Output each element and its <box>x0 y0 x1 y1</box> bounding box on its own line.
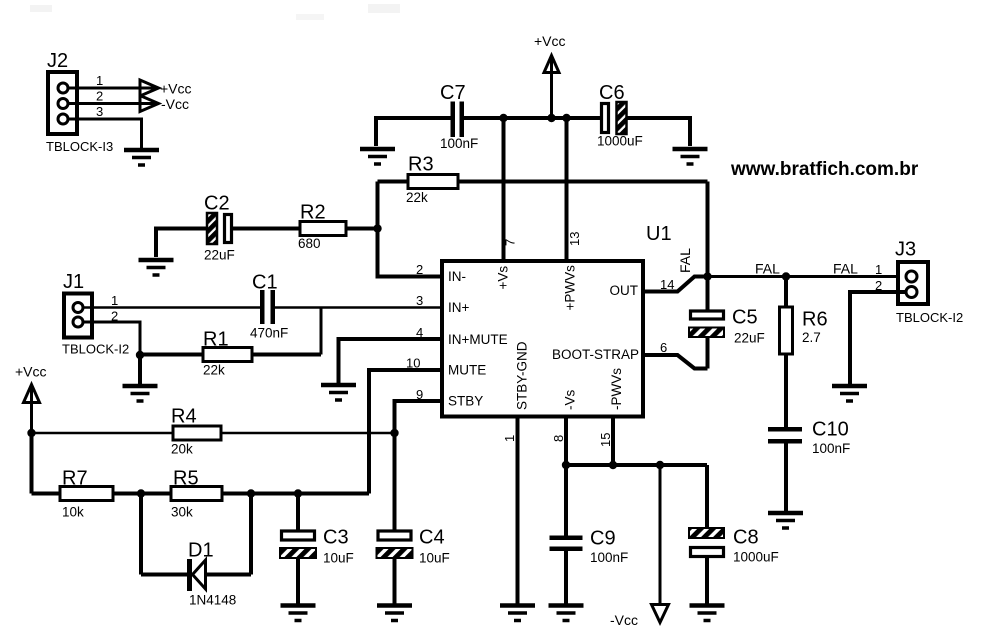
svg-text:C6: C6 <box>599 82 625 104</box>
svg-text:J1: J1 <box>63 271 84 293</box>
svg-text:3: 3 <box>96 104 103 119</box>
ground below C3 <box>281 606 316 621</box>
svg-text:C8: C8 <box>733 527 759 549</box>
ground below J2 <box>124 150 159 165</box>
svg-text:IN+: IN+ <box>448 300 470 315</box>
svg-text:14: 14 <box>660 277 674 292</box>
svg-text:R3: R3 <box>408 154 434 176</box>
ground pin 1 <box>500 606 535 621</box>
capacitor C3 <box>280 494 354 604</box>
wire feedback node down to pin 2 <box>378 182 441 277</box>
resistor R1 <box>140 329 321 378</box>
svg-text:1000uF: 1000uF <box>597 134 643 149</box>
svg-text:22k: 22k <box>203 363 225 378</box>
svg-text:C4: C4 <box>419 527 445 549</box>
svg-text:-Vcc: -Vcc <box>610 612 638 628</box>
svg-text:C2: C2 <box>204 193 230 215</box>
svg-text:6: 6 <box>660 340 667 355</box>
capacitor C2 <box>204 193 235 263</box>
connector J3 <box>895 239 963 326</box>
svg-text:-Vs: -Vs <box>563 390 578 411</box>
svg-text:100nF: 100nF <box>440 136 478 151</box>
svg-text:J3: J3 <box>895 239 916 261</box>
wire output node down to C5 <box>706 277 710 312</box>
svg-text:STBY-GND: STBY-GND <box>515 341 530 410</box>
svg-text:100nF: 100nF <box>812 441 850 456</box>
svg-text:2.7: 2.7 <box>802 330 821 345</box>
ground below C9 <box>549 606 584 621</box>
wire J2 pin3 to ground <box>68 119 142 148</box>
svg-text:R6: R6 <box>802 309 828 331</box>
svg-text:22uF: 22uF <box>204 248 235 263</box>
svg-text:+Vs: +Vs <box>496 266 511 290</box>
svg-text:C7: C7 <box>440 82 466 104</box>
svg-text:C10: C10 <box>812 419 849 441</box>
svg-text:2: 2 <box>416 262 423 277</box>
wire J1 pin1 to C1 <box>83 306 260 309</box>
node dot R5 right <box>247 489 255 497</box>
ground bus left <box>360 149 395 164</box>
wire C5 bottom to boot-strap jog <box>706 337 710 369</box>
svg-text:+PWVs: +PWVs <box>563 265 578 311</box>
svg-text:-PWVs: -PWVs <box>609 368 624 410</box>
svg-text:20k: 20k <box>171 442 193 457</box>
wire C10 to ground <box>784 444 788 512</box>
svg-text:470nF: 470nF <box>250 326 288 341</box>
wire J2 pin1 to +Vcc arrow <box>68 87 157 90</box>
wire BOOT-STRAP pin 6 jog <box>645 355 708 369</box>
node dot pin 15 <box>609 461 617 469</box>
resistor R5 <box>141 468 369 520</box>
+Vcc power arrow bottom left <box>15 364 47 434</box>
capacitor C5 <box>689 307 765 346</box>
wire pin 10 down <box>369 370 440 494</box>
svg-text:13: 13 <box>567 232 582 246</box>
svg-text:30k: 30k <box>171 505 193 520</box>
svg-text:+Vcc: +Vcc <box>160 81 192 97</box>
diode D1 <box>141 494 251 608</box>
svg-text:680: 680 <box>298 236 321 251</box>
resistor R4 <box>32 406 395 457</box>
node dot pin13 on bus <box>562 114 570 122</box>
svg-text:100nF: 100nF <box>590 550 628 565</box>
wire J2 pin2 to -Vcc arrow <box>68 102 157 105</box>
svg-text:10uF: 10uF <box>419 551 450 566</box>
resistor R2 <box>298 202 346 252</box>
svg-text:D1: D1 <box>188 540 214 562</box>
ground below J1 <box>123 386 158 401</box>
svg-text:1: 1 <box>502 435 517 442</box>
svg-text:1000uF: 1000uF <box>733 550 779 565</box>
capacitor C8 <box>689 465 779 604</box>
capacitor C1 <box>250 272 288 341</box>
svg-text:4: 4 <box>416 325 423 340</box>
wire bus to pin 13 <box>565 118 569 259</box>
svg-text:FAL: FAL <box>755 261 780 277</box>
svg-text:C3: C3 <box>323 527 349 549</box>
svg-text:J2: J2 <box>47 50 68 72</box>
ground below C10 <box>768 513 803 528</box>
wire +Vcc node down to R7 <box>30 433 34 494</box>
ground pin 4 <box>321 385 356 400</box>
capacitor C6 <box>597 82 643 149</box>
svg-text:www.bratfich.com.br: www.bratfich.com.br <box>730 159 919 180</box>
wire pin 9 node down to C4 <box>393 433 397 530</box>
wire R1 up to IN+ line <box>320 308 323 355</box>
wire OUT pin 14 jog to output node <box>645 277 708 292</box>
svg-text:15: 15 <box>598 433 613 447</box>
wire J3 pin2 to ground <box>850 292 906 384</box>
wire pin 15 down <box>611 418 615 465</box>
wire R2 to feedback node <box>346 227 378 231</box>
svg-text:+Vcc: +Vcc <box>15 364 47 380</box>
-Vcc power arrow bottom <box>610 465 669 628</box>
wire pin 1 STBY-GND to ground <box>516 418 520 604</box>
svg-text:BOOT-STRAP: BOOT-STRAP <box>552 347 639 362</box>
svg-text:FAL: FAL <box>833 261 858 277</box>
svg-text:2: 2 <box>96 89 103 104</box>
wire output node to J3 pin1 <box>708 275 907 278</box>
node dot R7 R5 <box>137 489 145 497</box>
svg-text:U1: U1 <box>646 223 672 245</box>
capacitor C4 <box>377 527 450 604</box>
svg-text:+Vcc: +Vcc <box>534 33 566 49</box>
node dot J1 pin2 <box>136 351 144 359</box>
wire pin 8 down <box>564 418 568 465</box>
wire bus to pin 7 <box>502 118 506 259</box>
wire R3 to output node <box>706 182 710 277</box>
svg-text:TBLOCK-I3: TBLOCK-I3 <box>46 139 113 154</box>
resistor R6 <box>780 277 828 428</box>
wire negative supply rail <box>566 463 707 467</box>
ground bus right <box>673 149 708 164</box>
svg-text:C9: C9 <box>590 528 616 550</box>
svg-text:TBLOCK-I2: TBLOCK-I2 <box>62 342 129 357</box>
wire C2 to R2 <box>233 227 300 231</box>
wire C6 to ground right <box>627 118 691 146</box>
svg-text:R5: R5 <box>173 468 199 490</box>
svg-text:1: 1 <box>96 73 103 88</box>
svg-text:9: 9 <box>416 387 423 402</box>
svg-text:22k: 22k <box>406 190 428 205</box>
svg-text:1: 1 <box>111 293 118 308</box>
svg-text:R7: R7 <box>62 468 88 490</box>
connector J2 <box>46 50 113 154</box>
svg-text:3: 3 <box>416 293 423 308</box>
svg-text:-Vcc: -Vcc <box>161 96 189 112</box>
ground J3 <box>832 386 867 401</box>
capacitor C7 <box>440 82 478 151</box>
node dot output <box>703 272 711 280</box>
wire C2 left to ground <box>156 229 207 258</box>
node dot -Vcc <box>656 461 664 469</box>
svg-text:C5: C5 <box>732 307 758 329</box>
node dot +Vcc R4 <box>27 429 35 437</box>
-Vcc arrow symbol <box>140 96 159 112</box>
ground below C8 <box>690 606 725 621</box>
node dot pin 8 <box>562 461 570 469</box>
svg-text:10uF: 10uF <box>323 551 354 566</box>
op-amp IC U1 body <box>442 223 672 417</box>
wire pin 4 to ground <box>339 339 441 383</box>
svg-text:1N4148: 1N4148 <box>189 593 236 608</box>
capacitor C9 <box>550 465 629 604</box>
wire C7 to C6 <box>464 116 600 120</box>
node dot pin7 on bus <box>499 114 507 122</box>
svg-text:1: 1 <box>875 262 882 277</box>
svg-text:R1: R1 <box>203 329 229 351</box>
svg-text:22uF: 22uF <box>734 331 765 346</box>
svg-text:MUTE: MUTE <box>448 363 486 378</box>
svg-text:10: 10 <box>406 356 420 371</box>
svg-text:7: 7 <box>503 239 518 246</box>
connector J1 <box>62 271 129 357</box>
svg-text:TBLOCK-I2: TBLOCK-I2 <box>896 310 963 325</box>
resistor R3 <box>378 154 708 206</box>
svg-text:C1: C1 <box>252 272 278 294</box>
svg-text:R4: R4 <box>171 406 197 428</box>
+Vcc arrow symbol <box>140 80 159 96</box>
svg-text:10k: 10k <box>62 505 84 520</box>
wire J1 pin2 down to node <box>83 322 140 355</box>
node dot pin 9 R4 <box>390 429 398 437</box>
wire pin 9 down <box>395 401 441 433</box>
wire node to ground <box>138 355 142 384</box>
svg-text:FAL: FAL <box>677 248 693 273</box>
svg-text:OUT: OUT <box>610 283 639 298</box>
node dot R2 junction <box>373 224 381 232</box>
wire C1 to pin 3 <box>275 306 440 309</box>
node dot R6 top <box>782 272 790 280</box>
ground below C4 <box>377 606 412 621</box>
svg-text:IN+MUTE: IN+MUTE <box>448 332 508 347</box>
svg-text:IN-: IN- <box>448 269 466 284</box>
svg-text:STBY: STBY <box>448 394 483 409</box>
capacitor C10 <box>768 419 850 457</box>
svg-text:R2: R2 <box>300 202 326 224</box>
wire top supply bus left <box>376 118 451 146</box>
resistor R7 <box>32 468 142 520</box>
node dot C3 top <box>294 489 302 497</box>
+Vcc power arrow top <box>534 33 566 118</box>
node dot +Vcc on bus <box>547 114 555 122</box>
ground left of C2 <box>139 260 174 275</box>
svg-text:8: 8 <box>551 435 566 442</box>
